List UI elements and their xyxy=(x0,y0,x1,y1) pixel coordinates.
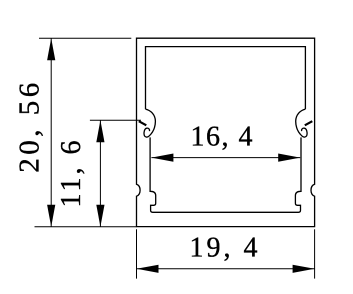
arrow 20,56 down xyxy=(47,205,55,227)
right ledge face xyxy=(305,121,313,125)
inner cavity lower walls and bottom xyxy=(150,137,301,212)
arrow 11,6 down xyxy=(96,205,104,227)
profile outer outline xyxy=(137,38,315,226)
left clip hook xyxy=(144,109,155,137)
extension line 19,4 right xyxy=(314,229,316,278)
right clip hook xyxy=(296,109,307,137)
svg-text:16, 4: 16, 4 xyxy=(191,122,255,153)
dimension line 20,56 xyxy=(50,38,52,226)
dimension line 19,4 xyxy=(137,268,315,270)
left ledge face xyxy=(139,121,147,125)
profile inner top and upper side walls xyxy=(146,47,306,110)
arrow 16,4 right xyxy=(278,154,300,162)
extension line 11,6 xyxy=(90,119,141,121)
extension line 19,4 left xyxy=(136,229,138,278)
arrow 19,4 right xyxy=(293,265,315,273)
dimension line 11,6 xyxy=(99,120,101,227)
extension line top (20,56) xyxy=(39,37,131,39)
arrow 20,56 up xyxy=(47,38,55,60)
extension line bottom shared xyxy=(35,226,137,228)
dimension line 16,4 xyxy=(151,157,300,159)
svg-text:11, 6: 11, 6 xyxy=(56,138,87,208)
arrow 19,4 left xyxy=(137,265,159,273)
svg-text:20, 56: 20, 56 xyxy=(14,79,46,173)
arrow 11,6 up xyxy=(96,120,104,142)
svg-text:19, 4: 19, 4 xyxy=(190,232,261,263)
arrow 16,4 left xyxy=(151,154,173,162)
